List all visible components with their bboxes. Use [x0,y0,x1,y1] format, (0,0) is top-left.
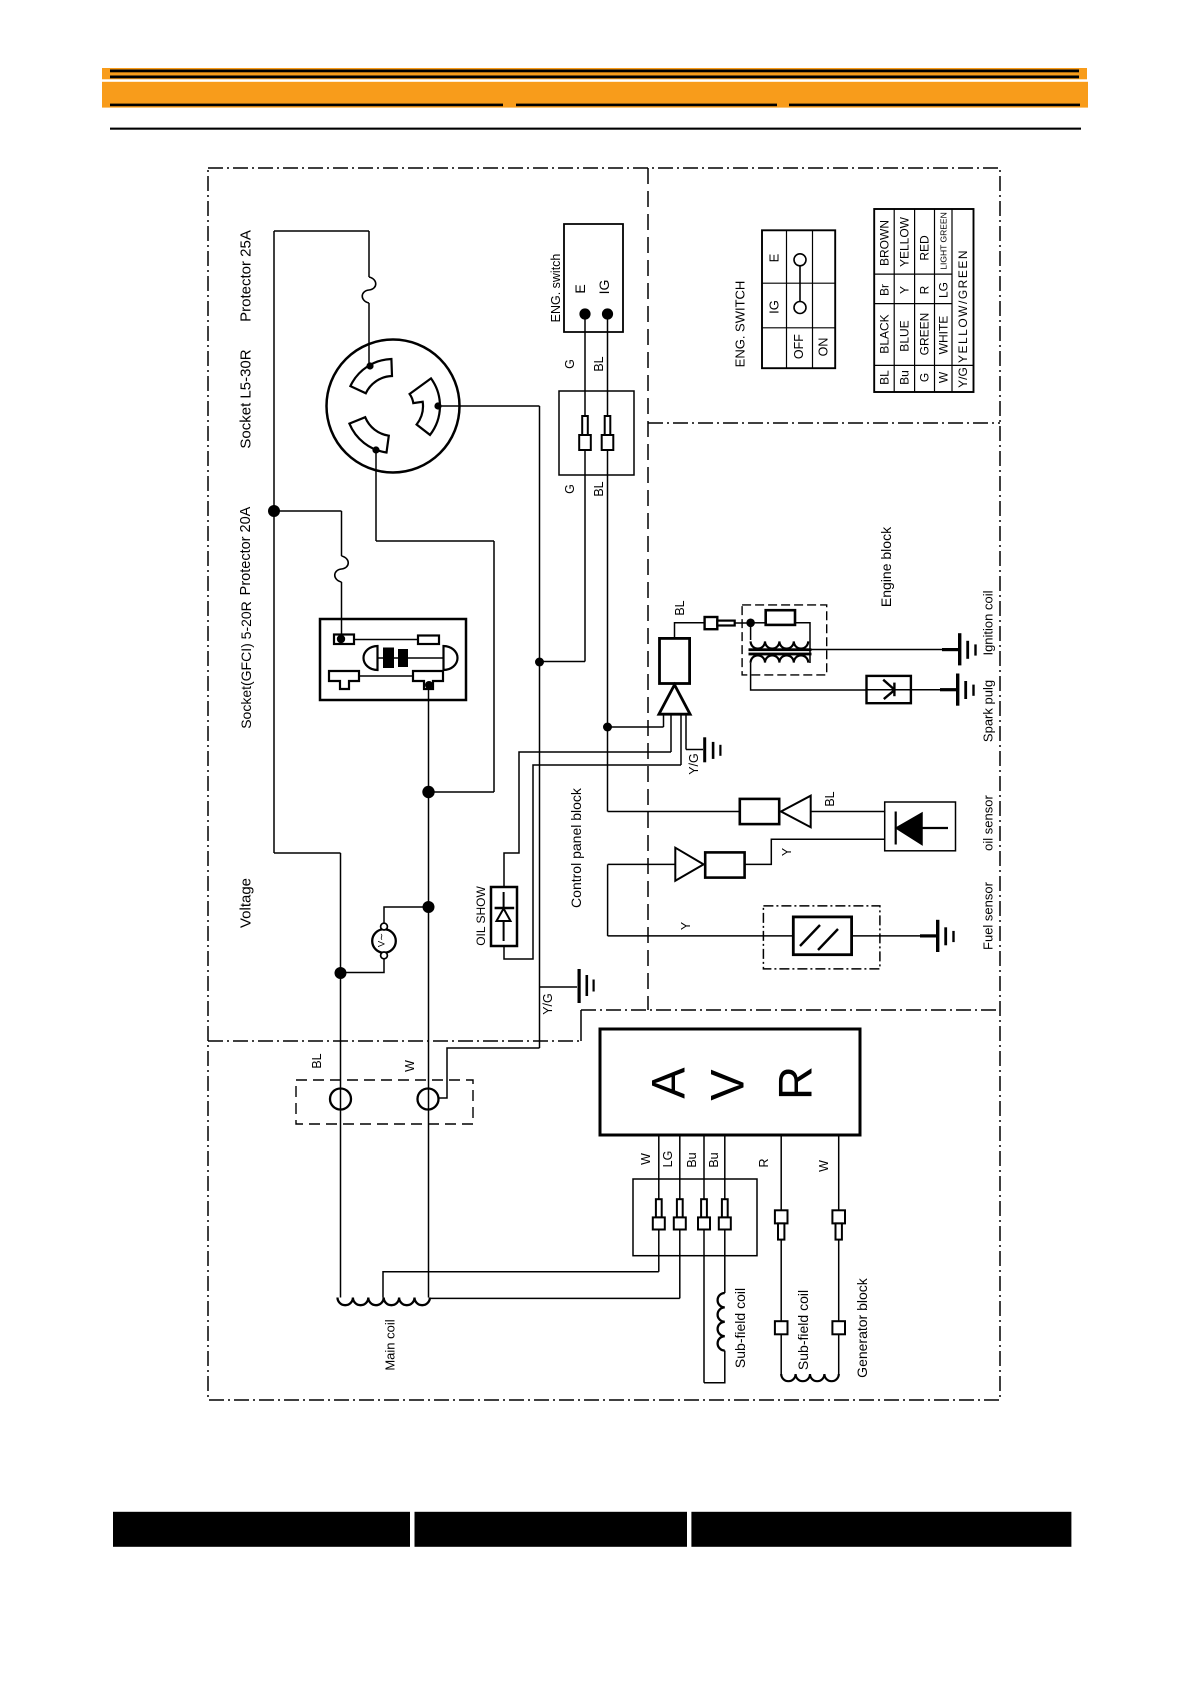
outer dash-dot border (wiring diagram frame) [208,168,1000,1400]
svg-text:E: E [572,284,588,293]
header bar black stripe seg2 [516,104,777,107]
relay pin3 lead [680,714,682,765]
svg-text:LIGHT GREEN: LIGHT GREEN [939,212,949,269]
ignition coil core bars [749,648,812,651]
wire relay pin2 run to OIL SHOW top [504,752,671,887]
wire YG rail bottom jog [438,1048,540,1098]
ignition primary resistor box [766,610,795,625]
socket slot W terminal dot [372,446,379,453]
fuel lamp box [705,852,744,877]
wire relay pin3 run to OIL SHOW bottom [504,765,681,959]
header top black rule 1 [110,70,1079,73]
header top black rule 2 [110,76,1079,79]
svg-text:Y: Y [780,847,794,856]
wire AVR Bu pin 1 [703,1135,705,1383]
left rail jog horizontal y=853 [274,852,341,854]
svg-text:Spark pulg: Spark pulg [981,680,996,742]
svg-text:BLACK: BLACK [878,314,892,353]
wire lamp left run [608,863,676,865]
GFCI middle link wires [378,657,384,659]
node junction dot voltmeter bottom [335,967,347,979]
svg-text:BL: BL [673,600,687,615]
plug Bu2 [722,1199,728,1217]
svg-text:ENG. SWITCH: ENG. SWITCH [733,281,748,368]
svg-text:Voltage: Voltage [238,878,255,928]
header bar black stripe seg3 [789,104,1080,107]
wire socket G slot horizontal [438,405,540,407]
wire jog horizontal y=541 [376,540,494,542]
connector block engine switch [559,391,634,475]
wire vertical x=494 [493,541,495,792]
plug W2 lower square [832,1321,845,1334]
ground symbol spark plug [956,674,959,706]
svg-text:BL: BL [823,791,837,806]
ground stub fuel sensor [920,934,936,937]
horizontal dash-dot divider y=423 (engine block top) [648,422,1000,424]
oil sensor diode symbol [895,812,897,845]
oil buzzer horn triangle [781,796,811,828]
wire BL from switch [607,314,609,727]
svg-text:OFF: OFF [792,334,806,359]
svg-text:YELLOW: YELLOW [898,216,912,267]
plug Bu1 [701,1199,707,1217]
socket slot W (lower-left) [349,417,388,452]
svg-text:Socket(GFCI) 5-20R: Socket(GFCI) 5-20R [238,601,254,729]
plug W [656,1199,662,1217]
ground stub ignition coil [942,648,958,651]
svg-text:Main coil: Main coil [383,1319,398,1370]
wire dot to primary [751,622,766,624]
wire top horizontal to fuse F1 [274,230,369,232]
sub-field coil 1 winding [718,1293,725,1351]
OIL SHOW indicator box [491,887,517,946]
GFCI right D opening [444,646,458,670]
svg-text:Y/G: Y/G [541,993,555,1015]
header thick orange bar [102,82,1088,108]
svg-text:BL: BL [878,370,892,385]
wire BL dot to relay pin1 [608,726,664,728]
wire G jog to YG rail [540,661,586,663]
plug R upper square [775,1210,788,1223]
wire fuse F2 upper lead [341,511,343,556]
GFCI lower-left T slot [329,671,359,689]
svg-text:W: W [639,1153,653,1165]
ignition coil dash-dot enclosure [742,605,827,675]
svg-text:E: E [767,253,782,262]
socket slot G (right, L-shaped) [410,378,440,435]
fuel lamp triangle [675,848,703,881]
inner vertical dashed divider (control panel / engine) [647,168,649,1010]
voltmeter bottom terminal [381,952,388,959]
fuel sensor dash-dot enclosure [763,906,880,969]
wire lamp drop to fuel sensor [607,864,609,936]
GFCI upper-left slot [334,635,354,645]
wire LG run to main coil end [429,1297,680,1299]
svg-text:BLUE: BLUE [898,320,912,351]
main coil winding [338,1298,430,1306]
node junction dot protector 20A tap [268,505,280,517]
svg-text:IG: IG [767,300,782,314]
svg-text:V∼: V∼ [377,933,388,947]
ground symbol Y/G (control panel) [578,969,581,1003]
svg-text:Generator block: Generator block [854,1277,870,1378]
CT block dashed box [296,1080,473,1124]
svg-text:G: G [563,359,577,369]
plug LG [677,1199,683,1217]
wire plug to ignition dot [735,622,751,624]
wire dot down to winding [750,623,752,640]
wire primary right side down [795,623,810,663]
svg-text:Y: Y [898,286,912,294]
footer black bar segment 3 [691,1512,1071,1547]
horizontal dash-dot divider (control panel block bottom) [208,1040,581,1042]
svg-text:Bu: Bu [685,1152,699,1167]
svg-text:ENG. switch: ENG. switch [549,254,563,323]
ground symbol ignition coil [958,633,961,665]
svg-text:Protector 25A: Protector 25A [238,230,255,322]
divider jog vertical at x=581 [580,1010,582,1041]
svg-text:W: W [403,1060,417,1072]
fuse F2 squiggle [335,556,349,582]
svg-text:YELLOW/GREEN: YELLOW/GREEN [956,249,970,363]
wire fuel sensor run [608,935,794,937]
left rail vertical wire [273,231,275,853]
socket slot X terminal dot [366,362,373,369]
svg-text:Control panel block: Control panel block [568,787,584,908]
svg-text:WHITE: WHITE [937,316,951,355]
GFCI node dot at inlet [337,635,345,643]
svg-text:BL: BL [592,481,606,496]
GFCI left D opening [364,646,378,670]
wire fuse F1 upper lead [368,231,370,277]
svg-text:R: R [769,1066,822,1100]
wire socket W slot down [375,450,377,541]
svg-text:OIL SHOW: OIL SHOW [474,886,488,946]
sub-field coil 2 winding [781,1374,839,1381]
ENG switch table grid [762,230,835,368]
ENG switch body box [564,224,623,332]
wire horizontal into GFCI-out node [429,791,495,793]
svg-text:oil sensor: oil sensor [981,795,996,851]
plug R lower square [775,1321,788,1334]
relay pin4 lead [685,714,687,749]
generator connector block [633,1179,757,1256]
GFCI socket body box [320,619,466,700]
wire secondary left down to spark plug [751,663,867,690]
svg-text:GREEN: GREEN [918,313,932,356]
header lower black rule [110,128,1081,130]
svg-text:BROWN: BROWN [878,220,892,266]
wire AVR W2 pin [838,1135,840,1374]
svg-text:LG: LG [661,1151,675,1168]
CT coil W circle [418,1089,439,1110]
relay pin1 lead [663,714,665,727]
svg-text:G: G [563,484,577,494]
wire voltmeter bottom lead [341,959,385,973]
wire sub-field coil 1 bottom loop [704,1351,725,1383]
wire AVR Bu pin 2 [724,1135,726,1293]
GFCI center black block 2 [398,649,408,667]
svg-text:Sub-field coil: Sub-field coil [732,1288,748,1368]
ignition coil secondary winding [751,655,809,662]
svg-text:Protector 20A: Protector 20A [238,506,254,595]
wire color legend table [874,209,973,392]
connector plug to ignition coil - square [705,617,718,629]
wire W rail down to voltmeter node [428,792,430,1298]
igniter amplifier triangle [659,685,690,715]
wire AVR W pin [658,1135,660,1272]
oil buzzer box [740,799,779,824]
svg-text:Ignition coil: Ignition coil [981,590,996,655]
wire pin4 to ground [686,749,703,751]
plug pin G stem [582,416,588,435]
svg-text:BL: BL [592,356,606,371]
GFCI center black block 1 [383,648,394,669]
svg-text:Y/G: Y/G [687,753,701,775]
ground symbol Y/G (igniter) [703,737,706,762]
ENG switch terminal dot E [579,308,590,319]
wire protector 20A tap horizontal [274,510,342,512]
wire BL horizontal to buzzer [608,811,740,813]
header bar black stripe seg1 [110,104,503,107]
wire fuse F1 lower lead to socket [368,303,370,366]
wire voltmeter top lead [384,907,429,923]
switch contact link [799,266,801,302]
svg-text:Sub-field coil: Sub-field coil [795,1290,811,1370]
ENG switch terminal dot IG [602,308,613,319]
wire AVR LG pin [679,1135,681,1298]
wire BL down to buzzer [607,727,609,812]
GFCI upper slot link wire [354,639,418,641]
left rail lower vertical to main coil (BL) [340,853,342,1298]
voltmeter top terminal [381,923,388,930]
spark plug box [867,676,911,703]
wire spark plug through-line [867,689,911,691]
GFCI lower-right T slot [413,671,443,689]
svg-text:IG: IG [596,280,612,295]
fuse F1 squiggle [362,277,376,303]
wire W sense run to main coil tap [383,1272,659,1298]
GFCI upper-right slot [418,636,439,645]
node junction dot ignition primary [746,619,755,628]
svg-text:BL: BL [310,1053,324,1068]
node junction dot G/YG [535,658,544,667]
plug pin G body [579,435,591,450]
svg-text:ON: ON [816,338,830,357]
wire Y/G rail vertical [539,406,541,1048]
svg-text:G: G [918,373,932,382]
svg-text:R: R [918,285,932,294]
header top thin orange band [102,68,1087,79]
ground stub spark plug [940,688,956,691]
node junction dot BL to relay [603,723,612,732]
wire relay top lead [675,623,705,639]
wire buzzer to oil sensor diode [811,811,885,813]
switch contact circle IG [794,302,806,314]
oil sensor diode box [885,802,956,851]
wire ignition ground run [810,649,942,651]
connector plug to ignition coil - bar [717,621,734,626]
svg-text:Y: Y [679,921,693,930]
svg-text:Y/G: Y/G [956,367,970,388]
svg-text:RED: RED [918,235,932,261]
horizontal dash-dot divider (engine block bottom) [581,1009,1000,1011]
svg-text:Engine block: Engine block [878,526,894,607]
voltmeter V circle [372,929,396,953]
fuel sensor element box [793,917,851,955]
svg-text:R: R [757,1158,771,1167]
plug pin BL body [602,435,614,450]
fuel sensor variable resistor strokes [800,925,820,946]
AVR box [600,1029,860,1135]
svg-text:Br: Br [878,284,892,296]
wire G from switch [584,314,586,662]
GFCI outlet terminal dot [425,681,433,689]
svg-text:Socket L5-30R: Socket L5-30R [238,349,255,448]
svg-text:V: V [701,1069,754,1101]
plug pin BL stem [605,416,611,435]
wire GFCI output down [428,689,430,792]
wire YG ground spur [540,986,578,988]
footer black bar segment 2 [415,1512,688,1547]
wire fuse F2 lower lead to GFCI [341,582,343,635]
OIL SHOW diode symbol [503,892,505,941]
switch contact circle E [794,254,806,266]
relay pin2 lead [670,714,672,752]
svg-text:LG: LG [937,282,951,298]
svg-text:W: W [817,1160,831,1172]
GFCI lower T link wire [359,675,413,677]
CT coil BL circle [330,1089,351,1110]
wire AVR R pin [780,1135,782,1374]
ignition coil primary winding [751,641,809,648]
svg-text:W: W [937,371,951,383]
node junction dot voltmeter top [423,901,435,913]
plug W2 upper square [832,1210,845,1223]
node junction dot GFCI output [422,786,434,798]
svg-text:Bu: Bu [707,1152,721,1167]
svg-text:Fuel sensor: Fuel sensor [981,881,996,950]
svg-text:Bu: Bu [898,370,912,385]
spark plug gap symbol [883,680,893,689]
footer black bar segment 1 [113,1512,410,1547]
svg-text:A: A [642,1067,695,1099]
igniter unit box (CDI) [660,638,690,683]
socket slot X (hot, upper-left) [350,359,392,393]
socket L5-30R body circle [327,340,460,473]
socket slot G terminal dot [434,402,441,409]
ground symbol fuel sensor [936,920,939,952]
wire lamp to oil sensor jog [745,839,885,864]
wire spark plug to ground [911,689,940,691]
wire fuel sensor to ground [852,935,920,937]
